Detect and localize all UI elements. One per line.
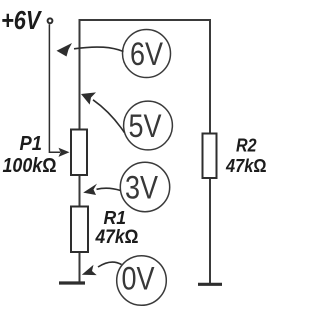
wire right vertical from top wire down to R2	[209, 19, 211, 134]
svg-text:100kΩ: 100kΩ	[3, 155, 57, 177]
svg-text:P1: P1	[20, 133, 43, 155]
wire thin feed from +6V terminal down and right to P1 wiper	[49, 24, 60, 152]
ground left	[59, 281, 85, 284]
svg-text:0V: 0V	[122, 261, 156, 297]
svg-text:R2: R2	[236, 135, 257, 156]
svg-text:5V: 5V	[129, 108, 163, 144]
ground right	[198, 283, 222, 286]
arrow from 3V meter to wire between P1 and R1	[97, 188, 121, 190]
meter circle 5V	[124, 101, 173, 150]
arrow from 0V meter to ground wire	[98, 262, 122, 267]
svg-text:3V: 3V	[125, 170, 159, 206]
svg-text:47kΩ: 47kΩ	[95, 227, 139, 248]
svg-text:47kΩ: 47kΩ	[225, 155, 267, 176]
wire top horizontal from left branch to right branch	[79, 19, 212, 21]
svg-text:R1: R1	[104, 208, 127, 228]
meter circle 6V	[123, 30, 171, 78]
wiper arrowhead of potentiometer P1	[59, 148, 70, 157]
meter circle 0V	[117, 256, 167, 306]
wire left vertical from top wire down to P1	[79, 19, 81, 130]
potentiometer P1 body	[71, 130, 87, 176]
svg-text:+6V: +6V	[1, 5, 43, 35]
arrow from 5V meter to wire above P1	[93, 100, 125, 133]
resistor R1 body	[71, 207, 88, 253]
node +6V terminal circle	[48, 18, 53, 23]
wire from R2 to right ground	[209, 178, 211, 284]
wire from R1 to ground	[79, 252, 81, 283]
resistor R2 body	[203, 134, 217, 179]
svg-text:6V: 6V	[130, 36, 164, 72]
arrow from 6V meter to +6V feed wire	[74, 47, 124, 51]
wire between P1 and R1	[79, 175, 81, 208]
meter circle 3V	[120, 162, 169, 211]
